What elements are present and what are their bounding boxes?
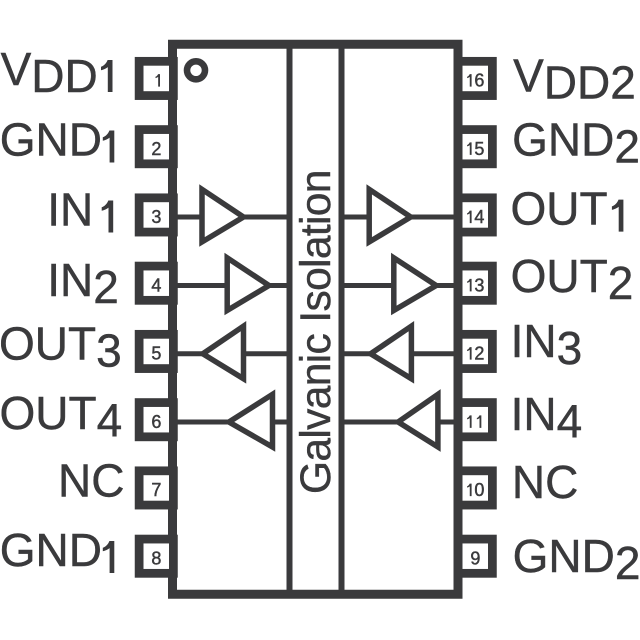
svg-text:OUT3: OUT3 <box>0 318 122 377</box>
svg-text:5: 5 <box>474 139 484 159</box>
svg-text:IN2: IN2 <box>47 254 119 313</box>
svg-text:GND2: GND2 <box>512 114 640 173</box>
svg-text:3: 3 <box>151 207 161 227</box>
svg-text:GND: GND <box>0 524 102 576</box>
svg-text:4: 4 <box>151 275 161 295</box>
svg-text:NC: NC <box>512 456 578 508</box>
svg-text:6: 6 <box>151 412 161 432</box>
svg-text:2: 2 <box>151 139 161 159</box>
svg-text:6: 6 <box>474 71 484 91</box>
svg-text:8: 8 <box>151 548 161 568</box>
svg-text:0: 0 <box>474 480 484 500</box>
svg-text:4: 4 <box>474 207 484 227</box>
svg-text:IN: IN <box>47 184 93 236</box>
svg-text:9: 9 <box>470 548 480 568</box>
svg-text:2: 2 <box>474 344 484 364</box>
svg-text:7: 7 <box>151 480 161 500</box>
svg-text:3: 3 <box>474 275 484 295</box>
svg-text:Galvanic Isolation: Galvanic Isolation <box>293 170 340 494</box>
svg-text:OUT2: OUT2 <box>511 250 634 309</box>
svg-text:VDD2: VDD2 <box>513 50 636 109</box>
svg-text:NC: NC <box>58 455 124 507</box>
svg-text:OUT: OUT <box>511 183 608 235</box>
svg-text:IN4: IN4 <box>511 388 583 447</box>
svg-text:OUT4: OUT4 <box>0 387 122 446</box>
svg-text:5: 5 <box>151 344 161 364</box>
svg-text:IN3: IN3 <box>511 315 583 374</box>
svg-text:GND: GND <box>0 114 102 166</box>
svg-text:VDD: VDD <box>1 43 98 102</box>
svg-text:GND2: GND2 <box>513 530 640 589</box>
